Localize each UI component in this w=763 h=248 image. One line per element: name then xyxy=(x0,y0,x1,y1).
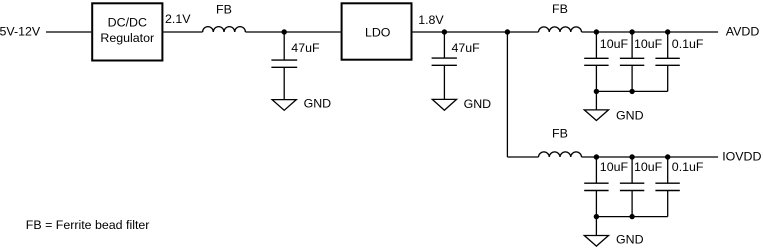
ferrite bead FB2 (AVDD) xyxy=(539,27,582,32)
svg-text:47uF: 47uF xyxy=(291,41,320,55)
svg-text:2.1V: 2.1V xyxy=(165,12,191,26)
capacitor C8 top lead xyxy=(667,157,669,183)
wire LDO output to AVDD FB xyxy=(413,31,539,33)
wire branch vertical to IOVDD row xyxy=(506,32,508,157)
junction C3 node xyxy=(594,29,599,34)
wire IOVDD ground bus xyxy=(596,216,667,218)
svg-text:LDO: LDO xyxy=(365,26,391,40)
ground G4 xyxy=(584,236,608,247)
svg-text:10uF: 10uF xyxy=(634,160,663,174)
capacitor C3 top lead xyxy=(595,32,597,58)
capacitor C4 bottom lead xyxy=(631,65,633,91)
svg-text:AVDD: AVDD xyxy=(726,25,760,39)
wire AVDD bus to ground xyxy=(595,91,597,110)
capacitor C1 47uF xyxy=(271,59,297,61)
svg-text:47uF: 47uF xyxy=(452,41,481,55)
ferrite bead FB1 xyxy=(203,27,246,32)
junction IOVDD bus J4 xyxy=(629,214,634,219)
capacitor C8 bottom lead xyxy=(667,191,669,217)
svg-text:IOVDD: IOVDD xyxy=(722,150,761,164)
wire AVDD ground bus xyxy=(596,90,667,92)
junction C4 node xyxy=(629,29,634,34)
junction node 2.1V rail xyxy=(282,29,287,34)
junction AVDD bus J1 xyxy=(594,89,599,94)
svg-text:GND: GND xyxy=(304,97,332,111)
svg-text:FB: FB xyxy=(552,2,568,16)
junction AVDD bus J2 xyxy=(629,89,634,94)
capacitor C1 top lead xyxy=(283,32,285,60)
capacitor C2 bottom lead xyxy=(443,65,445,99)
svg-text:10uF: 10uF xyxy=(634,37,663,51)
capacitor C1 bottom lead xyxy=(283,67,285,99)
capacitor C5 0.1uF xyxy=(655,57,679,59)
capacitor C2 top lead xyxy=(443,32,445,58)
capacitor C7 10uF xyxy=(620,182,644,184)
wire FB2 to AVDD xyxy=(582,31,719,33)
junction IOVDD bus J3 xyxy=(594,214,599,219)
junction branch node xyxy=(505,29,510,34)
junction C6 node xyxy=(594,154,599,159)
junction node 1.8V rail xyxy=(442,29,447,34)
svg-text:FB: FB xyxy=(552,127,568,141)
ground G3 xyxy=(584,110,608,121)
svg-text:GND: GND xyxy=(616,232,644,246)
capacitor C6 top lead xyxy=(595,157,597,183)
svg-text:FB = Ferrite bead filter: FB = Ferrite bead filter xyxy=(26,218,150,232)
svg-text:DC/DC: DC/DC xyxy=(108,16,147,30)
capacitor C3 bottom lead xyxy=(595,65,597,91)
wire IOVDD row to FB3 xyxy=(507,156,538,158)
junction C5 node xyxy=(665,29,670,34)
wire U1 output to FB1 xyxy=(163,31,202,33)
svg-text:GND: GND xyxy=(616,109,644,123)
svg-text:Regulator: Regulator xyxy=(100,31,154,45)
wire IOVDD bus to ground xyxy=(595,217,597,236)
capacitor C4 10uF xyxy=(620,57,644,59)
svg-text:10uF: 10uF xyxy=(600,160,629,174)
svg-text:0.1uF: 0.1uF xyxy=(672,37,704,51)
capacitor C3 10uF xyxy=(584,57,608,59)
ferrite bead FB3 (IOVDD) xyxy=(539,152,582,157)
capacitor C7 bottom lead xyxy=(631,191,633,217)
junction C8 node xyxy=(665,154,670,159)
wire FB3 to IOVDD xyxy=(582,156,719,158)
DC/DC regulator U1 xyxy=(92,3,162,60)
svg-text:10uF: 10uF xyxy=(600,37,629,51)
ground G2 xyxy=(432,99,456,110)
LDO U2 xyxy=(342,3,412,59)
capacitor C4 top lead xyxy=(631,32,633,58)
wire input to DC/DC xyxy=(46,31,91,33)
svg-text:5V-12V: 5V-12V xyxy=(0,25,41,39)
capacitor C5 bottom lead xyxy=(667,65,669,91)
capacitor C6 bottom lead xyxy=(595,191,597,217)
capacitor C7 top lead xyxy=(631,157,633,183)
svg-text:FB: FB xyxy=(216,2,232,16)
ground G1 xyxy=(272,100,296,111)
svg-text:GND: GND xyxy=(464,97,492,111)
wire FB1 to LDO xyxy=(245,31,340,33)
capacitor C5 top lead xyxy=(667,32,669,58)
svg-text:0.1uF: 0.1uF xyxy=(672,160,704,174)
capacitor C6 10uF xyxy=(584,182,608,184)
junction C7 node xyxy=(629,154,634,159)
svg-text:1.8V: 1.8V xyxy=(418,13,444,27)
capacitor C2 47uF xyxy=(432,57,457,59)
capacitor C8 0.1uF xyxy=(655,182,679,184)
